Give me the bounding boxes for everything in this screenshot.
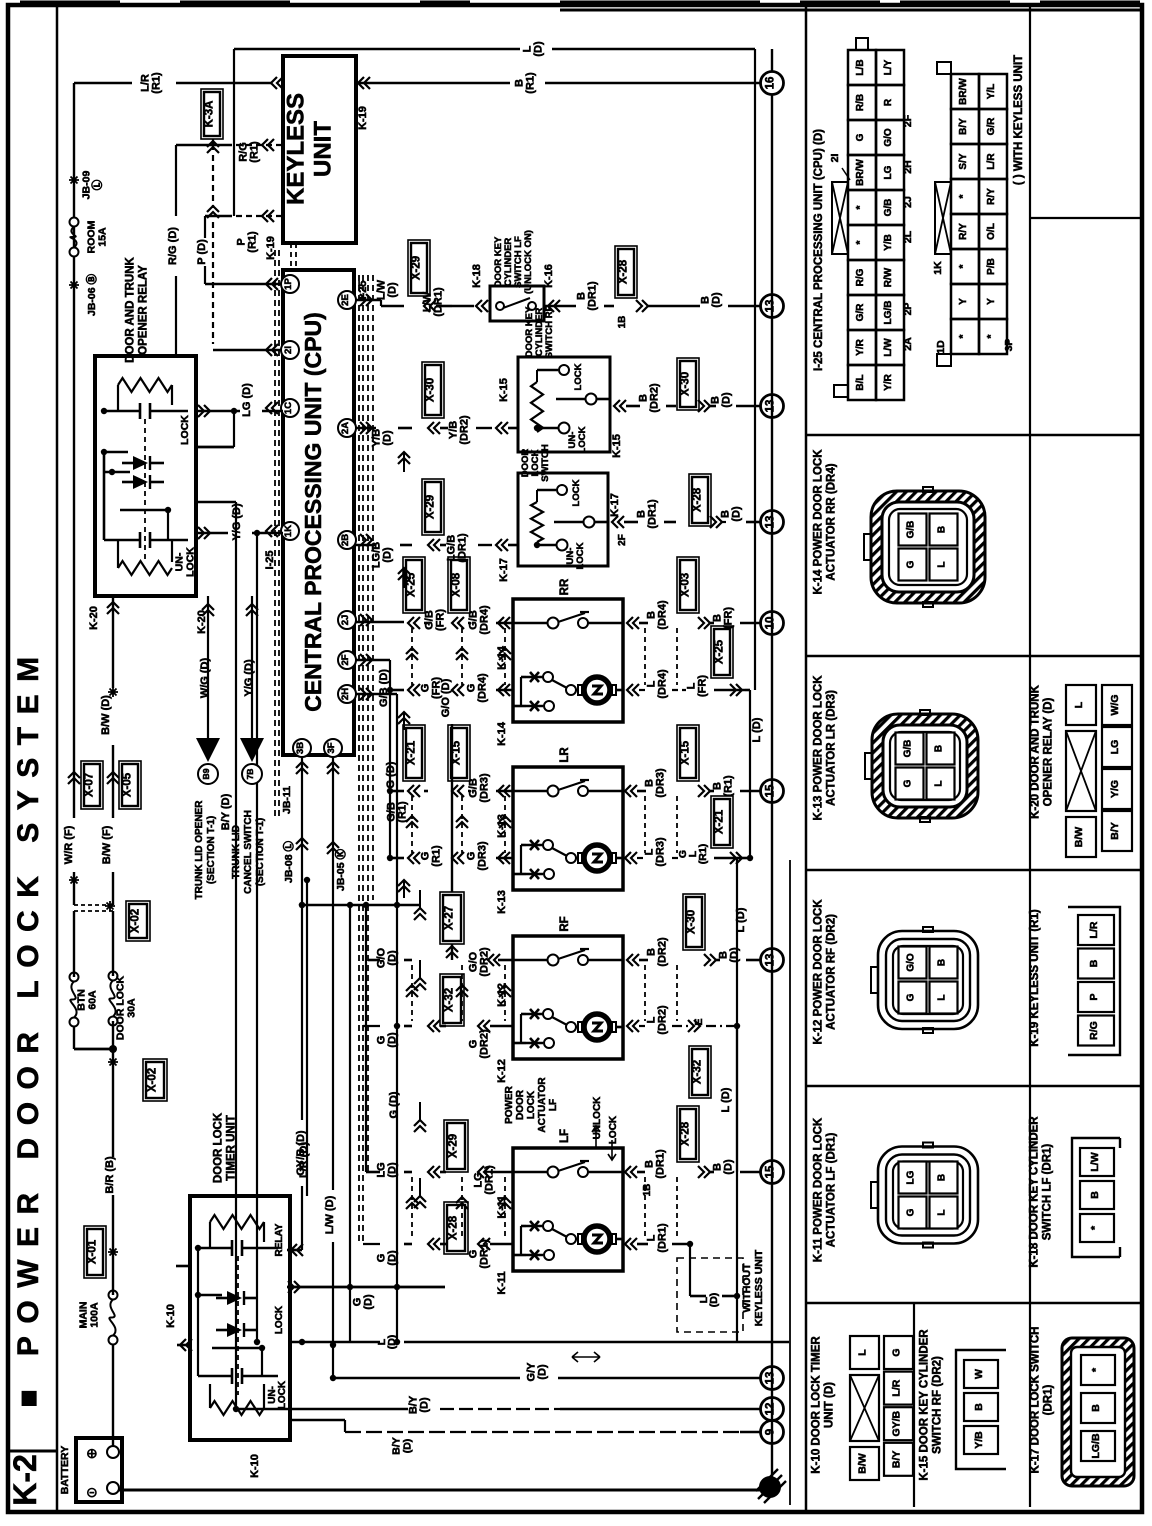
connector K-12 power door lock actuator RF label [813,899,838,1045]
svg-text:(DR1): (DR1) [647,499,659,529]
svg-text:R/W: R/W [883,267,894,287]
central processing unit U-I25 [283,270,354,755]
svg-text:X-25: X-25 [406,572,418,597]
timer labels [249,1223,288,1478]
svg-text:(SECTION T-1): (SECTION T-1) [255,818,266,886]
svg-text:KEYLESS: KEYLESS [283,93,310,205]
svg-text:(UNLOCK ON): (UNLOCK ON) [523,230,534,294]
connector X-29 row3 [422,479,518,582]
svg-text:L: L [857,1349,869,1356]
wire B/W(D) timer entry [176,1265,192,1268]
connector K-19 keyless unit label [1029,909,1041,1047]
wire mid vertical [347,902,353,1342]
connector K-18 pin strip [1072,1138,1120,1257]
svg-text:B/L: B/L [855,374,866,390]
joint circle 15 LR [761,780,784,803]
svg-text:X-28: X-28 [692,487,704,512]
connector X-21 LR [403,725,428,797]
svg-text:30A: 30A [126,998,138,1018]
svg-text:KEYLESS UNIT: KEYLESS UNIT [753,1249,765,1326]
joint circle 13 row3 [761,511,784,534]
svg-text:(DR4): (DR4) [479,605,491,635]
CPU pin 2B [338,531,372,549]
fuse DOOR LOCK 30A [109,972,138,1050]
connector K-15 door key cylinder switch RF label [919,1329,944,1481]
svg-text:L/W (D): L/W (D) [324,1195,336,1234]
svg-text:RR: RR [559,578,571,595]
svg-text:(DR3): (DR3) [655,837,667,867]
svg-text:7B: 7B [245,769,255,780]
keyless unit U-K19 [265,56,369,260]
svg-text:X-25: X-25 [714,639,726,664]
svg-text:X-32: X-32 [444,988,456,1012]
wire branch vertical [233,49,235,216]
svg-text:B9: B9 [201,768,211,779]
svg-text:UNIT: UNIT [310,121,337,177]
label unlock-lock arrows [592,1096,619,1160]
svg-text:13: 13 [765,1372,777,1385]
svg-text:G (D): G (D) [385,761,397,788]
svg-text:Y/B: Y/B [883,234,894,251]
svg-text:(FR): (FR) [435,609,447,631]
CPU pin 3F [324,739,342,757]
svg-text:(FR): (FR) [697,675,709,697]
title POWER DOOR LOCK SYSTEM [12,644,45,1407]
connector K-19 pin strip [1068,907,1120,1055]
wire Y/B(D) CPU 2A to X-30 [356,428,412,472]
svg-text:LG/B: LG/B [1090,1433,1102,1458]
wire right side extra vertical [789,860,791,1505]
connector K-13 power door lock actuator LR label [813,675,838,821]
joint circle 16 [761,72,784,95]
svg-text:Y/G (D): Y/G (D) [243,659,255,697]
wire B/W(F) relay feed [101,745,113,905]
svg-text:B: B [1090,1404,1102,1412]
battery [59,1438,122,1502]
wire B/W(D) to relay [100,596,119,735]
svg-text:(D): (D) [363,1294,375,1310]
svg-text:ACTUATOR LF (DR1): ACTUATOR LF (DR1) [826,1133,838,1248]
joint circle 13 RF [761,949,784,972]
svg-text:2P: 2P [902,303,914,316]
svg-text:(DR1): (DR1) [457,533,469,563]
wire Y/G(D) relay to CPU 1K [196,503,283,541]
svg-text:BATTERY: BATTERY [59,1446,71,1494]
svg-text:(DR3): (DR3) [477,841,489,871]
svg-text:(DR2): (DR2) [649,383,661,413]
wire LG(D) relay to CPU 1C [196,383,283,447]
svg-text:X-05: X-05 [122,772,134,797]
svg-text:(R1): (R1) [247,231,259,253]
wire W/R(F) up left [63,356,79,905]
svg-text:BR/W: BR/W [855,159,866,186]
wire G(D) timer pin [287,1281,445,1310]
svg-text:LG (D): LG (D) [241,383,253,417]
svg-text:( ) WITH KEYLESS UNIT: ( ) WITH KEYLESS UNIT [1013,55,1025,185]
svg-text:B/Y (D): B/Y (D) [220,793,232,830]
svg-text:2J: 2J [902,196,914,208]
svg-text:S/Y: S/Y [958,153,969,169]
joint circle 13 bottom [761,1367,784,1390]
svg-text:L (D): L (D) [720,1087,732,1112]
wire L(D) mid vertical [735,83,755,1342]
svg-text:(D): (D) [708,1293,720,1308]
connector K-3A [201,89,223,344]
dashed option wiring RR [406,628,677,685]
keyless option dashed stubs [291,243,296,270]
joint circle 9 [761,1421,784,1444]
connector X-29 row1 [408,240,474,317]
svg-text:B/W (F): B/W (F) [101,825,113,864]
svg-text:2H: 2H [340,688,351,700]
svg-text:X-28: X-28 [448,1215,460,1240]
svg-text:P/B: P/B [986,258,997,275]
CPU pin 1K [264,522,299,569]
svg-text:(D): (D) [382,430,394,446]
svg-text:X-32: X-32 [692,1060,704,1084]
svg-text:RELAY: RELAY [274,1223,285,1256]
svg-text:Y: Y [958,298,969,305]
wire B(DR1) row1 to joint 13 [544,246,762,328]
svg-text:*: * [958,194,969,198]
svg-text:R: R [883,98,894,106]
svg-text:K-11: K-11 [496,1271,508,1294]
svg-text:I-25 CENTRAL PROCESSING UNI: I-25 CENTRAL PROCESSING UNIT (CPU) (D) [813,129,825,371]
wire Y/G vertical [256,533,258,1342]
svg-text:K-15: K-15 [498,378,510,402]
svg-text:1C: 1C [283,402,294,414]
svg-text:POWER: POWER [504,1085,515,1124]
svg-text:TRUNK LID OPENER: TRUNK LID OPENER [194,800,205,900]
wire from CPU 3B to timer GY/B [281,757,308,1256]
svg-text:K-15: K-15 [611,434,623,458]
svg-text:3P: 3P [1003,339,1015,352]
svg-text:GY/B: GY/B [891,1410,903,1436]
svg-text:X-29: X-29 [411,256,423,280]
svg-text:G/B: G/B [883,199,894,217]
svg-text:2F: 2F [340,654,351,665]
svg-text:LOCK: LOCK [571,479,582,506]
svg-text:K-18 DOOR KEY CYLINDER: K-18 DOOR KEY CYLINDER [1029,1116,1041,1268]
svg-text:LOCK: LOCK [526,1090,537,1119]
connector K-14 round connector [864,487,985,607]
svg-text:ACTUATOR RF (DR2): ACTUATOR RF (DR2) [826,914,838,1030]
svg-text:G/B: G/B [903,740,914,758]
svg-text:*: * [958,334,969,338]
svg-text:K-19 KEYLESS UNIT (R1): K-19 KEYLESS UNIT (R1) [1029,909,1041,1047]
svg-text:(R1): (R1) [431,845,443,867]
svg-text:(R1): (R1) [249,141,261,163]
svg-text:G: G [906,1208,917,1216]
dashed keyless-option bus right of CPU [359,275,373,1244]
connector K-18 door key cylinder switch LF label [1029,1116,1054,1268]
wire B(DR2) RF to joint 13 [627,894,762,967]
wire G/Y(D) to joint 13 [333,1352,762,1381]
svg-text:K-19: K-19 [357,106,369,130]
svg-text:B/R (B): B/R (B) [104,1156,116,1194]
svg-text:UNIT (D): UNIT (D) [824,1382,836,1428]
svg-text:G/R: G/R [855,303,866,322]
svg-text:L/W: L/W [883,338,894,357]
connector K-10 pin grid [850,1336,913,1480]
svg-text:LG: LG [1109,740,1121,755]
svg-text:K-18: K-18 [471,264,483,288]
svg-text:(R1): (R1) [697,844,709,864]
note with keyless unit [1013,55,1025,185]
label trunk lid cancel switch section T-1 [231,810,266,894]
svg-text:K-20 DOOR AND TRUNK: K-20 DOOR AND TRUNK [1030,684,1042,818]
svg-text:(DR4): (DR4) [477,673,489,703]
dashed option wiring LF [406,1177,677,1239]
svg-text:2H: 2H [902,160,914,173]
svg-text:2I: 2I [829,154,841,163]
ground symbol [756,1469,786,1503]
svg-text:JB-06 Ⓑ: JB-06 Ⓑ [85,273,98,316]
connector X-25 RR [403,557,447,631]
svg-text:2E: 2E [340,294,351,306]
svg-text:*: * [855,205,866,209]
svg-text:B: B [937,526,948,533]
svg-text:R/Y: R/Y [986,188,997,205]
wire LG/B(D) CPU 2B to X-29 [356,542,412,588]
wire B(DR3) row3 to joint 13 [612,474,762,546]
svg-text:(D): (D) [387,1162,399,1178]
svg-text:LF: LF [548,1099,559,1111]
svg-text:X-29: X-29 [448,1134,460,1158]
svg-text:L/B: L/B [855,59,866,75]
fuse ROOM 15A with junction blocks JB-06 JB-09 [69,83,109,356]
svg-text:*: * [986,334,997,338]
svg-text:(D): (D) [402,1439,414,1454]
connector K-14 power door lock actuator RR label [813,449,838,595]
svg-text:(DR2): (DR2) [657,1005,669,1035]
svg-text:*: * [855,240,866,244]
wire G(D) CPU 2H down [356,694,397,1342]
svg-text:(DR1): (DR1) [655,1149,667,1179]
svg-text:L/R: L/R [986,153,997,170]
relay coil lower [104,532,188,575]
wire L(DR2) RF motor return [627,1005,740,1172]
svg-text:ACTUATOR LR (DR3): ACTUATOR LR (DR3) [826,690,838,806]
svg-text:9: 9 [765,1429,777,1435]
joint circle 15 LF [761,1161,784,1184]
svg-text:60A: 60A [87,990,99,1010]
connector X-29 LF [428,1120,513,1219]
timer contacts [195,1245,265,1395]
wire L(DR3) LR motor return [625,796,753,867]
svg-text:K-10: K-10 [165,1304,177,1328]
door lock switch K-17 [518,444,621,569]
svg-text:K-15 DOOR KEY CYLINDER: K-15 DOOR KEY CYLINDER [919,1329,931,1481]
connector table column frame [806,5,1142,1512]
wire G(FR) motor feed RR [387,673,513,730]
svg-text:G/O: G/O [883,128,894,147]
svg-text:K-20: K-20 [88,606,100,630]
CPU pin 1C [266,399,299,417]
svg-text:K-11 POWER DOOR LOCK: K-11 POWER DOOR LOCK [813,1117,825,1262]
svg-text:K-19: K-19 [265,236,277,260]
timer ref K-10 left [165,1304,192,1351]
label trunk lid opener section T-1 [194,800,217,900]
svg-text:K-14: K-14 [496,721,508,746]
svg-text:(R1): (R1) [151,72,163,94]
connector K-10 door lock timer unit label [811,1336,836,1474]
svg-text:15: 15 [765,784,777,797]
CPU pin 3B [293,739,311,757]
svg-text:*: * [958,264,969,268]
relay label UN-LOCK [174,547,197,577]
connector X-15 LR [448,725,513,838]
fuse MAIN 100A [78,1291,118,1345]
svg-text:LG: LG [883,165,894,179]
svg-text:3F: 3F [326,742,337,753]
svg-text:(D): (D) [419,1397,431,1413]
wire W/G(D) to trunk lid opener [196,596,220,784]
svg-text:G: G [891,1348,903,1356]
connector X-30 row2 [422,362,518,445]
wire relay pin stub [196,446,234,449]
door key cylinder switch RF K-15 [518,305,623,457]
wire G(R1) motor feed LR [387,841,513,898]
svg-text:(D): (D) [387,282,399,298]
connector K-11 power door lock actuator LF label [813,1117,838,1262]
CPU pin 2H [338,685,372,703]
dashed option wiring LR [406,796,677,853]
svg-text:2J: 2J [340,615,351,626]
svg-text:Y/B: Y/B [973,1431,985,1449]
svg-text:(R1): (R1) [723,775,735,797]
svg-text:LG/B: LG/B [883,301,894,325]
joint circle 12 [761,1398,784,1421]
svg-text:(DR2): (DR2) [459,415,471,445]
connector I-25 pin grid 2x10 [829,38,914,400]
svg-text:16: 16 [765,77,777,90]
svg-text:SWITCH LF (DR1): SWITCH LF (DR1) [1042,1144,1054,1241]
svg-text:10: 10 [765,617,777,630]
svg-text:1K: 1K [283,525,294,537]
svg-text:B/Y: B/Y [1109,822,1121,840]
svg-text:13: 13 [765,300,777,313]
CPU pin 2F [338,651,372,669]
timer relay coil lower [198,1368,278,1415]
fuse BTN 60A branch [70,911,114,1049]
connector K-20 door and trunk opener relay label [1030,684,1055,818]
door and trunk opener relay K-20 [95,256,196,596]
connector X-02 second marking [108,1057,167,1101]
svg-text:B: B [937,959,948,966]
svg-text:K-17 DOOR LOCK SWITCH: K-17 DOOR LOCK SWITCH [1030,1327,1042,1474]
svg-text:K-13: K-13 [496,890,508,914]
svg-text:X-30: X-30 [425,378,437,402]
svg-text:G: G [906,560,917,568]
svg-text:L: L [937,994,948,1000]
svg-text:X-02: X-02 [130,909,142,933]
svg-text:LOCK: LOCK [185,547,197,577]
svg-text:2A: 2A [902,337,914,351]
svg-text:DOOR: DOOR [515,1089,526,1120]
svg-text:(DR1): (DR1) [587,281,599,311]
wire G(D) feed RF motor [363,960,513,1059]
svg-text:X-30: X-30 [686,910,698,934]
wire L/R(R1) from room fuse to keyless [74,72,283,94]
svg-text:LOCK: LOCK [277,1380,288,1409]
svg-text:L/W: L/W [1089,1152,1101,1171]
connector I-25 pin grid 2x8 [932,62,1015,366]
connector K-11 round connector [871,1143,978,1248]
svg-text:R/G: R/G [1088,1021,1100,1040]
svg-text:2L: 2L [902,230,914,243]
svg-text:WITHOUT: WITHOUT [741,1263,753,1313]
diagram code K-2 [7,1451,57,1506]
svg-text:SWITCH RF (DR2): SWITCH RF (DR2) [932,1356,944,1454]
svg-text:P: P [1088,993,1100,1000]
svg-text:2I: 2I [283,346,294,354]
svg-text:L (D): L (D) [751,717,763,742]
relay ref K-20 right [196,610,208,634]
svg-text:LOCK: LOCK [573,363,584,390]
svg-text:12: 12 [765,1403,777,1416]
svg-text:(D): (D) [537,1364,549,1380]
svg-text:Ⓛ: Ⓛ [91,179,104,190]
svg-text:B: B [973,1403,985,1411]
svg-text:R/Y: R/Y [958,223,969,240]
svg-text:B: B [934,745,945,752]
svg-text:2F: 2F [902,114,914,127]
svg-text:K-12: K-12 [496,1059,508,1083]
wire LG(D) feed LF from mid vertical [363,902,426,1178]
svg-text:ACTUATOR: ACTUATOR [537,1077,548,1133]
svg-text:(DR3): (DR3) [479,773,491,803]
wire L(DR1) LF motor return without keyless option [625,1223,765,1332]
svg-text:K-10 DOOR LOCK TIMER: K-10 DOOR LOCK TIMER [811,1336,823,1474]
svg-text:OPENER RELAY (D): OPENER RELAY (D) [1043,698,1055,807]
wire G/B to LR switch [386,788,409,823]
svg-text:G (D): G (D) [388,1091,400,1118]
svg-text:B: B [1088,959,1100,967]
power door lock actuator RR [496,578,623,746]
connector K-20 pin grid [1066,685,1132,857]
svg-text:K-14 POWER DOOR LOCK: K-14 POWER DOOR LOCK [813,449,825,595]
svg-text:13: 13 [765,400,777,413]
svg-text:L/R: L/R [891,1379,903,1396]
svg-text:(D): (D) [721,392,733,408]
svg-text:⊕: ⊕ [86,1445,98,1461]
connector X-08 RR [448,557,513,670]
svg-text:K-3A: K-3A [204,101,216,128]
wire P(R1) to keyless [205,210,283,253]
svg-text:■ POWER DOOR LOCK SYSTEM: ■ POWER DOOR LOCK SYSTEM [12,644,45,1407]
svg-text:Y/L: Y/L [986,84,997,100]
svg-text:SWITCH: SWITCH [540,444,551,482]
svg-text:TIMER UNIT: TIMER UNIT [226,1115,238,1181]
connector K-17 door lock switch label [1030,1327,1055,1474]
svg-text:100A: 100A [89,1302,101,1328]
svg-text:ACTUATOR RR (DR4): ACTUATOR RR (DR4) [826,463,838,580]
door key cylinder switch LF K-18/K-16 [471,230,560,321]
connector X-01 [84,1195,118,1295]
svg-text:G: G [855,133,866,141]
label power door lock actuator LF [504,1077,559,1133]
door lock timer unit K-10 [190,1112,290,1440]
svg-text:G/O: G/O [906,953,917,972]
wire L/R(D) to timer [298,877,310,1196]
wire G/B CPU 2J to RR switch [356,621,404,624]
svg-text:LOCK: LOCK [608,1115,619,1144]
wire G(D) lower label and junction row [299,902,420,1119]
svg-text:(DR1): (DR1) [657,1223,669,1253]
svg-text:(D): (D) [533,41,545,57]
svg-text:Y/G: Y/G [1109,780,1121,798]
